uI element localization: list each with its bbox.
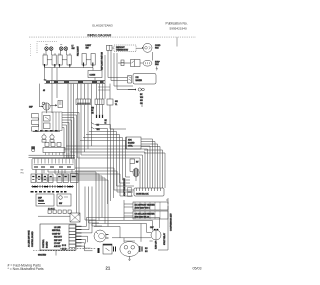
svg-text:AC LINE 120V 60HZ: AC LINE 120V 60HZ bbox=[28, 230, 31, 247]
refrigerator lamp B bbox=[64, 47, 68, 51]
wire end terminals bbox=[97, 105, 103, 115]
corner maze wire 7 bbox=[80, 141, 126, 178]
inline connector J2 bbox=[95, 99, 104, 105]
tiny box row bbox=[45, 143, 61, 147]
wire drop to connector strip bbox=[45, 67, 94, 81]
cap lead wires bbox=[147, 232, 157, 243]
maze wire 3 bbox=[70, 152, 145, 188]
svg-text:START RELAY: START RELAY bbox=[163, 232, 166, 245]
motor terminals bbox=[106, 235, 109, 239]
wire labels with arrows bbox=[91, 123, 95, 130]
svg-text:EVAP: EVAP bbox=[155, 60, 160, 63]
svg-text:SW: SW bbox=[59, 203, 62, 205]
refrigerator lamp A bbox=[59, 45, 63, 51]
svg-text:Publication No.: Publication No. bbox=[166, 21, 188, 25]
lamp leads bbox=[46, 50, 52, 55]
thermistor B bbox=[50, 134, 54, 143]
board feed corner 1 bbox=[85, 187, 96, 221]
push switch row B bbox=[57, 174, 78, 183]
wire bbox=[46, 110, 48, 113]
long drop wire bbox=[104, 55, 106, 99]
hatch strip under switches bbox=[31, 185, 74, 187]
svg-text:SW: SW bbox=[21, 170, 24, 172]
board output wire 3 bbox=[82, 224, 147, 233]
connector strip B1 bbox=[128, 188, 165, 197]
svg-text:CONTROL: CONTROL bbox=[43, 239, 45, 248]
maze wire 8 bbox=[110, 128, 126, 130]
elbow wire 7 bbox=[62, 128, 64, 159]
svg-text:CONN BLOCK: CONN BLOCK bbox=[136, 194, 149, 196]
aux switch box bbox=[57, 194, 71, 206]
svg-text:45: 45 bbox=[43, 90, 45, 92]
svg-text:TIMER: TIMER bbox=[38, 201, 45, 203]
wire bus feed bbox=[44, 68, 46, 81]
main harness connector strip bbox=[45, 80, 106, 83]
svg-text:DEF OUT: DEF OUT bbox=[54, 240, 63, 242]
push switch row A bbox=[31, 174, 53, 183]
connector J2 feeds bbox=[97, 84, 103, 99]
svg-text:* = Non-Illustrated Parts: * = Non-Illustrated Parts bbox=[8, 267, 44, 271]
horizontal over compressor bbox=[112, 237, 151, 239]
wire stub below board bbox=[55, 251, 57, 256]
elbow wire 1 bbox=[62, 113, 79, 217]
small sensor box bbox=[107, 99, 113, 105]
svg-text:5 5 5: 5 5 5 bbox=[62, 248, 66, 250]
dashed cabinet bottom bbox=[33, 250, 40, 252]
corner maze wire 3 bbox=[110, 129, 114, 198]
wire bbox=[130, 164, 136, 182]
board bottom hatch bbox=[40, 250, 76, 252]
maze wire 6 bbox=[48, 170, 102, 227]
footer bbox=[8, 170, 202, 271]
condenser fan motor M1 bbox=[143, 43, 152, 52]
svg-text:5995421940: 5995421940 bbox=[170, 26, 187, 30]
svg-text:CONTROL BOARD: CONTROL BOARD bbox=[31, 231, 34, 247]
svg-text:5 5 5: 5 5 5 bbox=[62, 245, 66, 247]
svg-text:NEUTRAL: NEUTRAL bbox=[52, 229, 60, 232]
maze wire 7 bbox=[36, 170, 108, 227]
maze wire 2 bbox=[64, 149, 148, 188]
heater bar B3 bbox=[133, 211, 168, 219]
elbow wire 5 bbox=[62, 123, 69, 159]
bus with contacts bbox=[33, 130, 60, 133]
elbow wire 6 bbox=[62, 125, 67, 159]
wire bus over motor bbox=[94, 227, 120, 238]
small pilot lamp bbox=[32, 149, 35, 152]
svg-text:PNL: PNL bbox=[21, 172, 24, 174]
run capacitor bbox=[151, 230, 161, 241]
ice maker module bbox=[128, 74, 157, 85]
evaporator fan motor M2 bbox=[143, 60, 152, 66]
defrost thermostat dashed box bbox=[114, 45, 136, 52]
connector row2 bbox=[118, 60, 131, 66]
compressor motor bbox=[120, 241, 139, 256]
elbow wire 4 bbox=[62, 120, 72, 159]
svg-text:FAN OUT: FAN OUT bbox=[54, 236, 63, 239]
corner maze wire 5 bbox=[86, 135, 120, 184]
elbow wire 3 bbox=[62, 118, 74, 159]
adaptive defrost control board bbox=[126, 137, 141, 149]
svg-text:GROUND: GROUND bbox=[38, 254, 47, 256]
overload protector bbox=[103, 244, 112, 254]
thermistor A bbox=[42, 134, 46, 143]
wire h pair bbox=[29, 155, 76, 157]
dashed enclosure corner bbox=[37, 42, 57, 54]
alarm buzzer bbox=[133, 168, 139, 177]
board feed corner 2 bbox=[89, 187, 100, 224]
right bracket wire bbox=[166, 198, 168, 204]
header bbox=[29, 21, 196, 37]
svg-text:YL: YL bbox=[115, 104, 117, 106]
harness verticals left bbox=[68, 84, 74, 159]
cabinet dashed edge bbox=[30, 44, 32, 57]
wire bus under switches bbox=[45, 66, 94, 67]
wire bbox=[94, 78, 96, 81]
dashed cabinet line bbox=[60, 247, 96, 249]
board feed corner 3 bbox=[92, 187, 102, 227]
dark terminal blob bbox=[31, 146, 35, 149]
heater output arrow bbox=[50, 105, 57, 107]
vertical drops right bbox=[124, 224, 141, 242]
svg-text:MAKER: MAKER bbox=[136, 79, 143, 82]
adc leads bbox=[141, 139, 160, 188]
svg-text:SW: SW bbox=[72, 48, 75, 50]
wire to plug bbox=[128, 89, 136, 91]
svg-text:BOARD: BOARD bbox=[128, 142, 135, 145]
svg-text:COMP RY: COMP RY bbox=[52, 233, 61, 235]
corner maze wire 2 bbox=[95, 125, 111, 202]
water valve wire bbox=[141, 105, 143, 108]
svg-text:BOARD: BOARD bbox=[46, 241, 49, 248]
svg-text:CONN: CONN bbox=[90, 75, 96, 77]
maze wire 5 bbox=[78, 158, 141, 188]
long right wire bbox=[158, 206, 168, 250]
svg-text:FRZ LIGHT: FRZ LIGHT bbox=[78, 45, 80, 56]
svg-text:REF LIGHT SWITCH: REF LIGHT SWITCH bbox=[102, 52, 104, 70]
connector blob left bbox=[98, 248, 100, 253]
wire bbox=[140, 62, 143, 64]
connector X box bbox=[70, 213, 80, 222]
compressor feed bus bbox=[96, 222, 99, 226]
thermostat lead connector bbox=[107, 45, 115, 50]
nested corner wires bbox=[85, 243, 93, 251]
terminal strip flat box bbox=[43, 148, 65, 156]
connector drop wires bbox=[36, 170, 72, 174]
defrost timer box bbox=[36, 194, 54, 206]
svg-text:21: 21 bbox=[106, 266, 111, 271]
refrigerator door switch body bbox=[58, 53, 71, 66]
board output wire 2 bbox=[82, 221, 153, 231]
wire bbox=[136, 47, 143, 49]
dotted rule bbox=[29, 36, 196, 38]
svg-text:AUX RY: AUX RY bbox=[54, 245, 61, 248]
relay K1 bbox=[131, 60, 141, 67]
defrost heater circle bbox=[39, 103, 50, 110]
freezer door switch body bbox=[43, 53, 56, 66]
connector P1 bbox=[88, 71, 102, 78]
freezer lamp B bbox=[49, 47, 53, 51]
corner maze wire 4 bbox=[89, 132, 117, 187]
defrost heater element zigzag bbox=[32, 114, 39, 132]
sensor feed wire bbox=[109, 84, 111, 99]
ground symbol bbox=[156, 67, 158, 71]
svg-text:CTRL: CTRL bbox=[128, 146, 133, 148]
wire to connector X bbox=[38, 215, 70, 217]
right bundle bbox=[155, 142, 165, 189]
corner risers join bbox=[117, 177, 135, 186]
small relay box bbox=[130, 159, 135, 164]
wire bbox=[109, 105, 111, 129]
small junction box bbox=[58, 101, 63, 108]
svg-text:THERMOSTAT: THERMOSTAT bbox=[116, 49, 129, 52]
plug and receptacle bbox=[138, 88, 144, 91]
wire pair right bbox=[98, 87, 110, 90]
wire bracket from rule bbox=[176, 37, 178, 46]
main control board outline bbox=[40, 224, 76, 250]
corner maze wire 1 bbox=[95, 129, 108, 205]
bundle continues bbox=[78, 84, 92, 158]
svg-text:COMPRESSOR 115V: COMPRESSOR 115V bbox=[171, 213, 173, 231]
lamp leads bbox=[61, 50, 67, 55]
riser wires to strips bbox=[114, 190, 134, 196]
inline connector J1 bbox=[76, 99, 91, 105]
wire row1 to row2 bbox=[152, 52, 154, 61]
svg-text:05/03: 05/03 bbox=[193, 266, 202, 270]
condenser fan motor M3 bbox=[94, 230, 106, 242]
svg-text:BK DEFROST HEATER: BK DEFROST HEATER bbox=[135, 203, 156, 206]
svg-text:OR MULLION HEATER: OR MULLION HEATER bbox=[135, 212, 155, 215]
mullion door switch body bbox=[82, 54, 95, 67]
interface connector bbox=[32, 159, 75, 170]
maze horizontals lower bbox=[75, 168, 120, 196]
dark terminal text row bbox=[31, 191, 67, 193]
svg-text:SW: SW bbox=[86, 48, 89, 50]
maze wire 4 bbox=[81, 155, 143, 188]
elbow wire 2 bbox=[62, 115, 77, 213]
compressor ground bbox=[128, 256, 130, 260]
pin lead arrows bbox=[76, 226, 82, 246]
heater bar B2 bbox=[133, 202, 168, 210]
heater leads left bbox=[124, 200, 133, 220]
compressor top leads bbox=[123, 241, 125, 244]
svg-text:GLHS267ZAW3: GLHS267ZAW3 bbox=[92, 23, 113, 27]
corner maze wire 6 bbox=[83, 138, 123, 181]
small indicator circle bbox=[42, 102, 45, 105]
harness bundle drops bbox=[78, 84, 89, 99]
svg-text:L1 LINE: L1 LINE bbox=[54, 227, 61, 229]
wire drops from strip bbox=[52, 84, 57, 113]
svg-text:LT OUT: LT OUT bbox=[54, 243, 61, 245]
svg-text:450W 120V WH 5: 450W 120V WH 5 bbox=[135, 208, 150, 210]
compressor right terminal bbox=[140, 246, 142, 252]
board output wire 4 bbox=[82, 236, 88, 246]
component enclosure box bbox=[42, 112, 62, 131]
maze wire 1 bbox=[66, 146, 150, 188]
light switch drop wires bbox=[108, 50, 133, 89]
svg-text:ADAPTIVE DEFROST: ADAPTIVE DEFROST bbox=[123, 177, 126, 196]
freezer lamp A bbox=[45, 45, 49, 51]
thermostat boxes bbox=[44, 112, 60, 131]
board output wire 1 bbox=[82, 218, 160, 229]
heater feed wire bbox=[39, 84, 41, 107]
relay contact bars bbox=[114, 247, 116, 252]
